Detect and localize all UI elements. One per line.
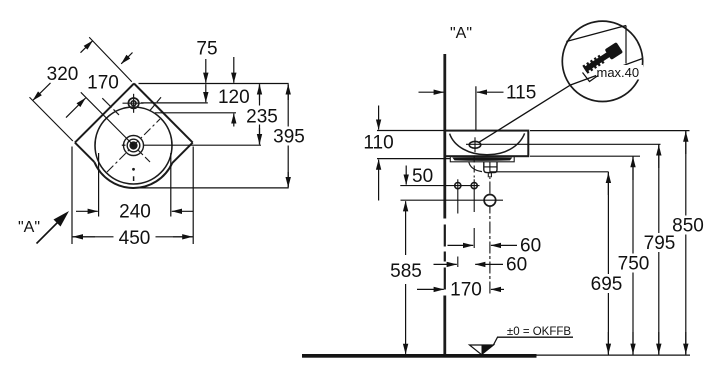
dim 235 upper arrow: [259, 84, 261, 100]
svg-text:170: 170: [87, 73, 119, 94]
bolts axis line: [400, 185, 479, 187]
drain inner circle: [130, 142, 137, 149]
svg-text:585: 585: [390, 261, 422, 282]
dim 695 line: [607, 172, 609, 355]
svg-text:±0 = OKFFB: ±0 = OKFFB: [507, 326, 571, 338]
dim 170 upper segment with arrow: [121, 53, 132, 64]
dim 170 extension to bowl center: [81, 92, 134, 145]
supply circle axis line: [401, 199, 504, 201]
bowl centerline left tick: [122, 144, 126, 146]
svg-text:750: 750: [618, 254, 650, 275]
left bolt circle: [455, 183, 461, 189]
overflow center dot: [132, 168, 135, 171]
dim 240 left arrow: [76, 210, 98, 212]
underside dark band: [452, 157, 512, 161]
bowl centerline diagonal continuation SE: [138, 150, 151, 163]
dim 450 right arrow: [173, 236, 192, 238]
right bolt circle: [471, 183, 477, 189]
dim 240 right arrow: [172, 210, 193, 212]
svg-text:115: 115: [506, 83, 536, 104]
svg-text:60: 60: [520, 236, 541, 257]
extension fixing hole to 795: [466, 143, 661, 145]
fixing hole ellipse: [469, 141, 481, 148]
dim 585 lower arrow: [405, 284, 407, 354]
extension shelf left: [377, 158, 450, 160]
svg-text:170: 170: [450, 280, 482, 301]
bowl inner circle: [95, 107, 172, 184]
extension basin top left: [377, 130, 444, 132]
svg-text:240: 240: [119, 202, 151, 223]
dim 850 label: [670, 216, 707, 237]
extension basin top to 850: [530, 130, 690, 132]
dim 450 left arrow: [73, 236, 95, 238]
dim 240 left extension: [98, 153, 100, 217]
floor thick line: [302, 354, 537, 358]
dim 850 upper arrow: [685, 132, 687, 154]
svg-text:110: 110: [363, 133, 393, 154]
svg-text:"A": "A": [450, 25, 472, 42]
svg-text:450: 450: [119, 228, 151, 249]
svg-text:395: 395: [273, 127, 305, 148]
dim 395 upper arrow: [287, 84, 289, 100]
floor thin extension: [537, 354, 691, 356]
wall line solid top: [443, 54, 446, 219]
dim 50 arrow: [405, 166, 407, 185]
dim 170e right arrow: [491, 288, 504, 290]
dim 115 left arrow: [419, 91, 444, 93]
svg-text:795: 795: [644, 233, 676, 254]
bowl horizontal centerline to 235 line: [144, 144, 261, 146]
left bolt vertical tick: [457, 179, 459, 192]
basin upper-left edge: [75, 84, 134, 143]
right bolt dashed centerline upper: [473, 156, 475, 178]
dim 320 upper extension line: [89, 37, 132, 81]
trap left curve: [469, 162, 482, 172]
dim 395 label: [270, 127, 309, 148]
trap outlet stub: [488, 173, 491, 178]
basin lower-left edge: [75, 143, 95, 163]
dim 795 upper arrow: [658, 145, 660, 168]
dim 585 upper arrow: [405, 201, 407, 255]
dim 395 lower arrow: [287, 172, 289, 187]
extension line y=112.8: [155, 112, 236, 114]
extension line tap hole (y=102.9): [141, 102, 208, 104]
dim 170 lower segment with arrow: [66, 98, 86, 118]
svg-text:50: 50: [412, 166, 433, 187]
basin side profile box: [445, 131, 529, 157]
dim 450 left extension: [71, 147, 73, 245]
detail chord upper: [566, 26, 626, 42]
left bolt dashed centerline: [457, 192, 459, 267]
wall line solid bottom: [443, 296, 446, 358]
supply circle: [484, 195, 496, 207]
trap cup: [484, 162, 497, 173]
dim 750 label: [615, 254, 652, 275]
extension trap bottom to 695: [490, 171, 608, 173]
dim 110 lower arrow: [378, 160, 380, 201]
extension basin bottom to 750: [530, 155, 640, 157]
drain outer circle: [124, 136, 144, 156]
svg-text:850: 850: [672, 216, 704, 237]
svg-text:75: 75: [196, 38, 217, 59]
svg-text:60: 60: [506, 255, 527, 276]
fixing hole vertical tick: [474, 137, 476, 152]
extension line front (y=187.9): [140, 187, 289, 189]
svg-text:320: 320: [47, 64, 79, 85]
dim 120 lower arrow: [233, 114, 235, 127]
tap hole vertical tick: [133, 94, 135, 113]
basin front outer arc: [94, 162, 172, 188]
dim 115 extension line: [475, 86, 477, 130]
extension line top corner (y=83.5): [139, 83, 289, 85]
dim 795 label: [641, 233, 678, 254]
svg-text:235: 235: [246, 107, 278, 128]
svg-text:"A": "A": [18, 219, 40, 236]
detail circle: [562, 21, 642, 101]
centerline dash below drain: [133, 176, 135, 181]
bowl centerline diagonal NE-SW: [107, 119, 160, 172]
level connector line: [494, 337, 498, 345]
basin upper-right edge: [134, 84, 193, 143]
dim 750 upper arrow: [632, 157, 634, 180]
view arrow A head: [54, 211, 70, 227]
dim 235 lower arrow: [259, 128, 261, 144]
tap hole left tick: [123, 102, 144, 104]
dim 695 label: [589, 274, 626, 295]
dim 695 lower arrow: [607, 332, 609, 354]
dim 850 lower arrow: [685, 332, 687, 354]
dim 235 label: [244, 106, 281, 128]
dim 60b left arrow: [434, 263, 457, 265]
dim 450 label: [114, 228, 156, 250]
detail vertical wall line: [625, 26, 627, 64]
dim 795 line: [658, 144, 660, 354]
dim 320 upper segment with arrow: [81, 41, 93, 53]
max.40 label: [596, 65, 643, 80]
svg-text:max.40: max.40: [597, 65, 640, 80]
dim 450 right extension: [192, 147, 194, 245]
screw Q1: [582, 42, 624, 75]
right bolt dashed centerline: [473, 192, 475, 248]
dim 795 lower arrow: [658, 332, 660, 354]
tap hole inner circle: [131, 101, 136, 106]
svg-text:695: 695: [591, 274, 623, 295]
dim 60a right arrow: [491, 244, 517, 246]
dim 235 line: [259, 84, 261, 144]
dim 450 line: [72, 236, 193, 238]
dim 695 upper arrow: [607, 173, 609, 195]
dim 750 lower arrow: [632, 332, 634, 354]
dim 75 lower arrow: [205, 84, 207, 102]
dim 850 line: [685, 131, 687, 355]
dim 115 right arrow: [477, 91, 504, 93]
dim 60a left arrow: [448, 244, 474, 246]
detail pointer line and wall chord: [479, 59, 643, 143]
max.40 leader zigzag: [583, 73, 599, 82]
dim 120 upper arrow: [233, 57, 235, 83]
dim 60b right arrow: [475, 263, 503, 265]
right bolt vertical tick: [473, 179, 475, 192]
OKFFB underline: [497, 336, 573, 338]
dim 110 upper arrow: [378, 106, 380, 130]
basin lower-right edge: [172, 143, 193, 164]
wall line dashed middle: [444, 225, 446, 290]
drain middle circle: [127, 139, 140, 152]
underside shelf outline: [450, 156, 514, 162]
trap tick: [484, 166, 497, 168]
level triangle filled half: [482, 345, 494, 355]
dim 75 upper arrow: [205, 59, 207, 83]
svg-text:120: 120: [218, 87, 250, 108]
basin bowl section curve: [450, 133, 525, 154]
dim 320 lower extension line: [30, 97, 73, 141]
dim 240 right extension: [170, 153, 172, 217]
dim 170e left arrow: [417, 288, 444, 290]
dim 395 line: [287, 84, 289, 187]
level triangle outline: [470, 345, 494, 355]
dim 320 lower segment with arrow: [33, 83, 51, 101]
dim 750 line: [632, 156, 634, 355]
tap hole outer circle: [128, 98, 138, 108]
diagonal dash pair left of tap hole: [102, 98, 119, 115]
diagonal dash right of tap hole: [150, 97, 162, 111]
view arrow A (plan): [37, 218, 63, 244]
drain centerline: [489, 162, 491, 297]
